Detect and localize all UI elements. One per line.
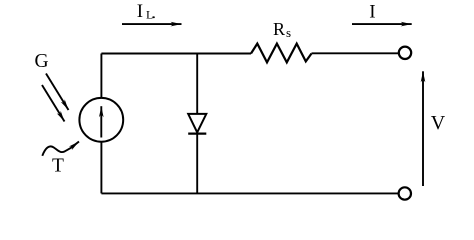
svg-text:L: L [146, 8, 153, 22]
svg-text:I: I [137, 1, 143, 22]
svg-text:s: s [286, 25, 291, 40]
svg-text:T: T [52, 156, 64, 177]
svg-text:V: V [431, 112, 446, 134]
svg-text:I: I [369, 2, 375, 23]
svg-text:R: R [273, 19, 285, 39]
svg-text:G: G [35, 51, 49, 72]
